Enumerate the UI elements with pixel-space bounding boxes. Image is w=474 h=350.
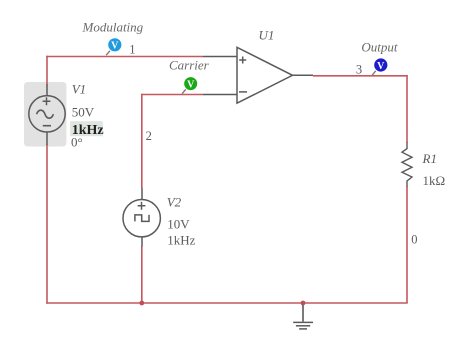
wire R1 bottom vertical [406,187,408,304]
label R1 [422,151,437,166]
svg-text:10V: 10V [167,217,190,232]
V2 square-wave source [123,188,160,247]
svg-text:Carrier: Carrier [169,57,210,72]
svg-text:1kHz: 1kHz [167,233,195,248]
svg-text:V2: V2 [167,194,182,209]
svg-text:R1: R1 [422,151,437,166]
svg-text:0°: 0° [71,135,83,150]
label V2 [167,194,182,209]
svg-text:1kΩ: 1kΩ [423,173,446,188]
svg-text:Output: Output [361,39,398,54]
V1 AC source [29,84,65,145]
label V2 value 10V [167,217,190,232]
svg-text:V: V [377,61,385,72]
label V1 1kHz highlighted [70,121,103,138]
wire node3 output horizontal [313,75,408,77]
wire node1 top horizontal [46,56,203,58]
svg-text:50V: 50V [72,105,95,120]
svg-text:Modulating: Modulating [82,20,144,35]
label R1 value 1kOhm [423,173,446,188]
svg-text:V1: V1 [72,81,86,96]
node 3 [356,62,362,76]
wire node3 R1 top vertical [406,75,408,143]
wire bottom ground bus [46,302,407,304]
label Output [361,39,398,54]
svg-text:V: V [111,41,119,52]
label Carrier [169,57,210,72]
svg-text:V: V [187,79,195,90]
label V2 value 1kHz [167,233,195,248]
label V1 value 50V [72,105,95,120]
junction ground bus [301,301,306,306]
probe Carrier (green) [182,77,197,94]
wire node2 vertical [141,94,143,188]
wire V2 bottom vertical [141,246,143,303]
node 2 [146,129,152,143]
svg-text:3: 3 [356,62,362,76]
node 0 [411,233,417,247]
wire V1 top stub [46,56,48,85]
label Modulating [82,20,144,35]
ground [293,305,313,329]
svg-text:1: 1 [129,43,135,57]
wire V1 bottom vertical [46,145,48,304]
label V1 [72,81,86,96]
junction V2-ground bus [139,301,144,306]
wire node2 carrier horizontal [141,94,203,96]
V1 selection highlight box [24,82,66,147]
node 1 [129,43,135,57]
probe Output (dark blue) [372,58,387,75]
label V1 phase 0deg [71,135,83,150]
svg-text:U1: U1 [259,28,275,43]
label U1 [259,28,275,43]
probe Modulating (blue) [106,38,121,55]
op-amp U1 [203,47,313,103]
resistor R1 [402,142,412,187]
svg-text:0: 0 [411,233,417,247]
svg-text:2: 2 [146,129,152,143]
